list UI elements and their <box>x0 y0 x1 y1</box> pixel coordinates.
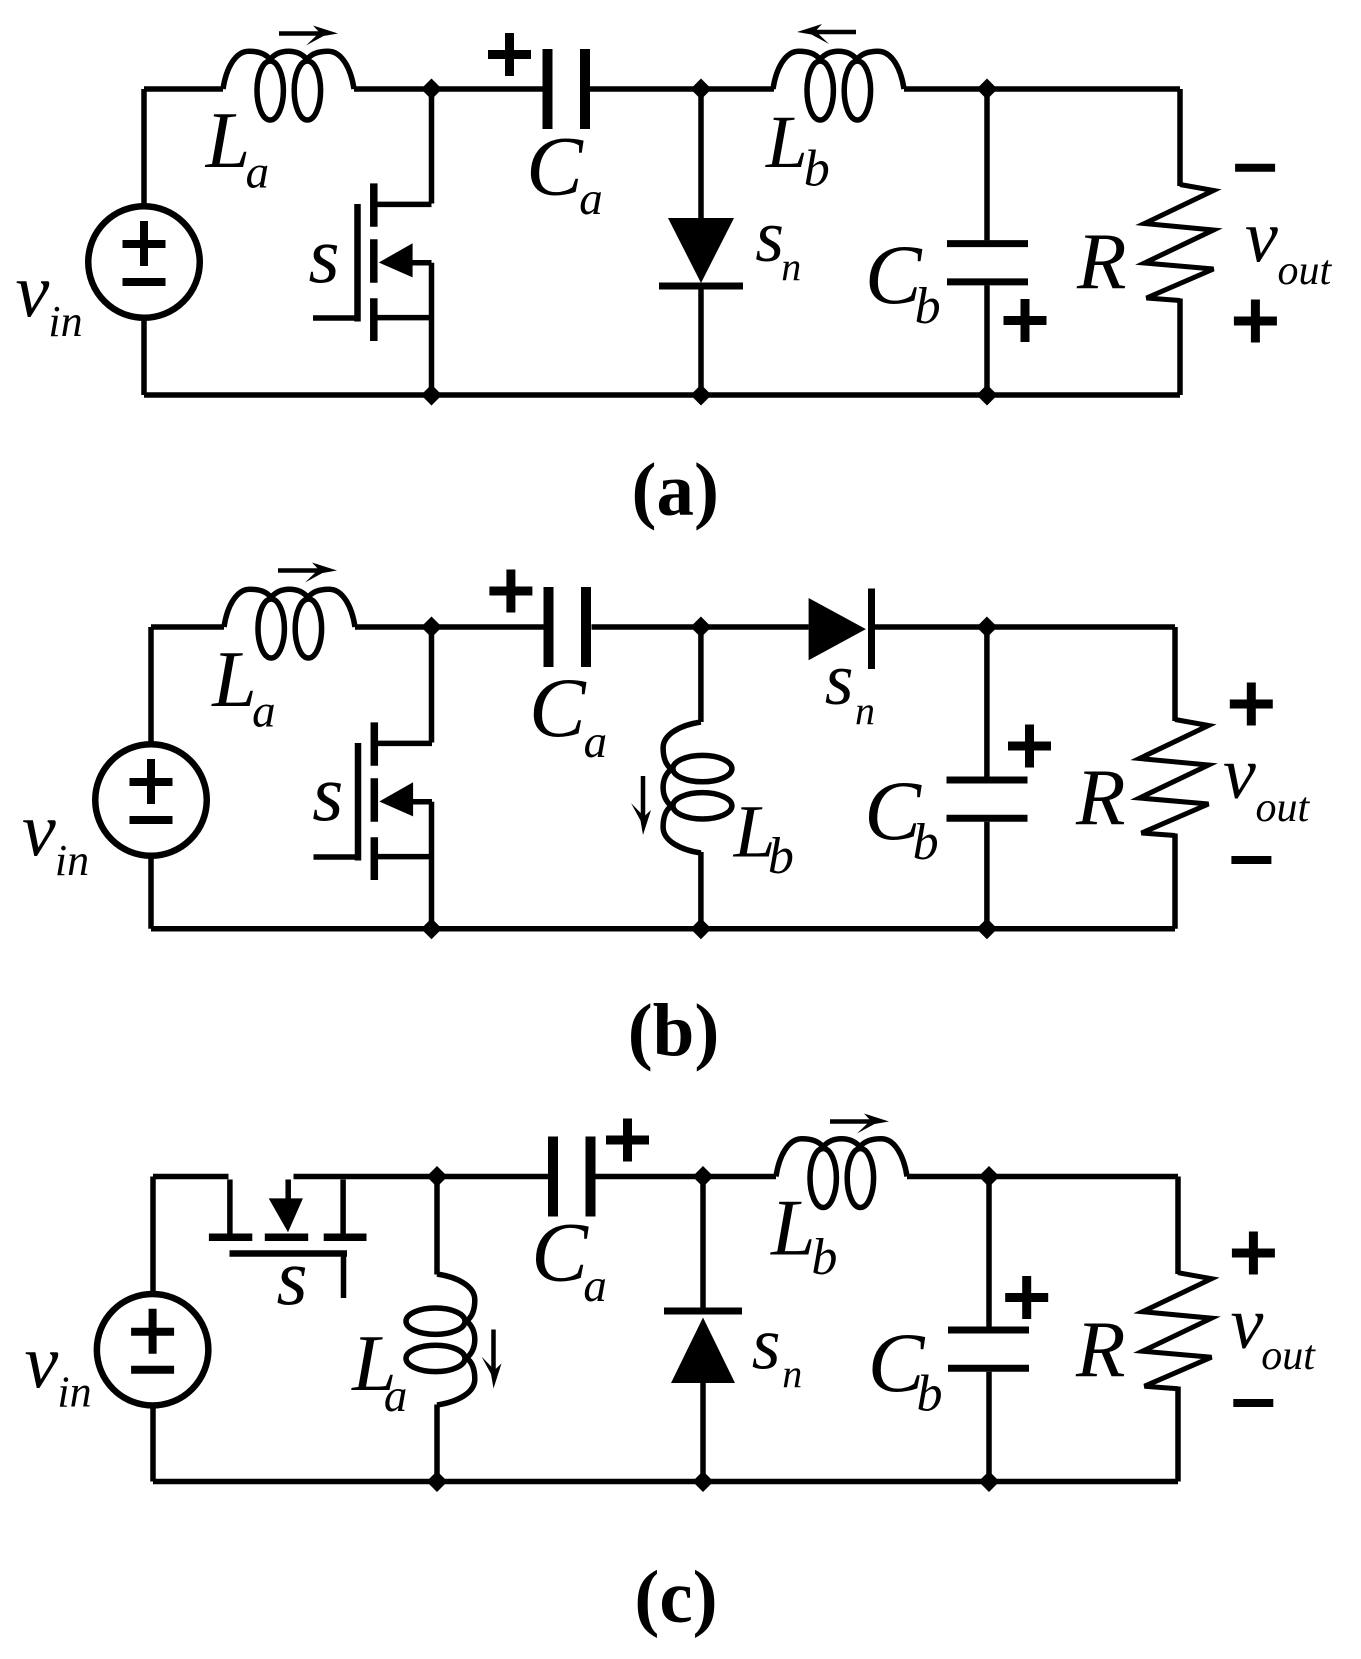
svg-text:a: a <box>583 1260 607 1312</box>
svg-text:b: b <box>811 1229 837 1286</box>
svg-text:v: v <box>1223 733 1256 815</box>
svg-text:b: b <box>768 828 794 885</box>
svg-text:R: R <box>1075 1304 1125 1394</box>
svg-text:out: out <box>1278 248 1333 294</box>
svg-text:C: C <box>529 661 587 755</box>
svg-text:n: n <box>781 244 801 289</box>
svg-text:s: s <box>277 1234 308 1322</box>
svg-text:s: s <box>309 212 340 300</box>
svg-text:in: in <box>55 836 89 885</box>
svg-text:b: b <box>804 140 830 197</box>
svg-text:a: a <box>252 686 276 738</box>
svg-text:L: L <box>211 636 256 724</box>
svg-text:out: out <box>1261 1333 1316 1379</box>
svg-text:b: b <box>917 1366 943 1423</box>
svg-text:v: v <box>25 1321 59 1405</box>
svg-text:a: a <box>246 147 270 199</box>
svg-text:R: R <box>1076 216 1126 306</box>
svg-text:s: s <box>752 1304 781 1386</box>
svg-text:a: a <box>584 716 608 768</box>
svg-text:(c): (c) <box>634 1556 717 1639</box>
svg-text:v: v <box>1231 1283 1264 1365</box>
svg-text:v: v <box>16 250 50 334</box>
svg-text:L: L <box>765 101 808 184</box>
svg-text:a: a <box>579 173 603 225</box>
svg-text:in: in <box>48 297 82 346</box>
svg-text:(b): (b) <box>628 990 720 1073</box>
svg-text:s: s <box>755 196 784 278</box>
svg-text:L: L <box>770 1185 816 1273</box>
svg-text:R: R <box>1075 752 1125 842</box>
svg-text:(a): (a) <box>632 448 719 531</box>
svg-text:s: s <box>825 639 854 721</box>
svg-text:in: in <box>57 1368 91 1417</box>
svg-text:L: L <box>205 97 251 185</box>
svg-text:b: b <box>913 814 939 871</box>
svg-text:b: b <box>915 278 941 335</box>
svg-text:n: n <box>782 1351 802 1396</box>
svg-text:v: v <box>22 789 56 873</box>
svg-text:C: C <box>526 120 584 214</box>
svg-text:a: a <box>384 1370 408 1422</box>
svg-text:out: out <box>1256 785 1311 831</box>
svg-text:s: s <box>312 750 343 838</box>
svg-text:n: n <box>855 688 875 733</box>
svg-text:v: v <box>1245 197 1278 279</box>
svg-text:C: C <box>531 1206 589 1300</box>
